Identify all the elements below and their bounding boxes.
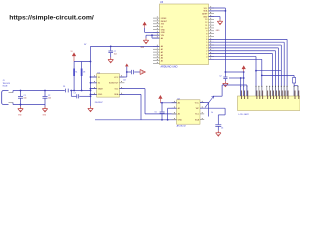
svg-text:104: 104 [48,98,51,100]
svg-text:VBAT: VBAT [98,87,104,90]
svg-text:3V3: 3V3 [161,24,164,26]
svg-text:1: 1 [206,53,207,55]
svg-text:6: 6 [206,39,207,41]
svg-text:ARDUINO UNO: ARDUINO UNO [161,66,178,69]
svg-text:SDA: SDA [114,93,119,96]
svg-text:10: 10 [205,28,207,30]
svg-text:AREF: AREF [202,13,208,16]
svg-text:VCC: VCC [195,102,200,104]
svg-text:1k: 1k [211,112,213,114]
svg-text:A5: A5 [161,60,163,63]
svg-text:SQW/OUT: SQW/OUT [109,83,119,85]
svg-text:A4: A4 [161,57,163,60]
svg-text:C1: C1 [24,95,26,97]
svg-text:C2: C2 [48,95,50,97]
svg-text:C5: C5 [155,112,157,114]
svg-text:C6: C6 [221,127,223,129]
svg-text:VCC: VCC [114,77,119,79]
svg-text:4: 4 [206,45,207,47]
svg-text:8: 8 [206,33,207,35]
svg-text:0: 0 [206,56,207,58]
svg-text:5V-IN: 5V-IN [3,86,8,88]
svg-text:A0: A0 [161,37,163,40]
svg-text:A2: A2 [161,51,163,54]
svg-text:TBLOCK: TBLOCK [3,83,11,85]
svg-text:3: 3 [206,48,207,50]
svg-text:GND: GND [203,16,208,18]
svg-text:11: 11 [205,25,207,27]
svg-text:D1: D1 [63,86,65,88]
svg-text:GND: GND [161,29,166,31]
svg-text:12: 12 [205,22,207,24]
svg-text:9: 9 [206,31,207,33]
svg-text:A3: A3 [161,54,163,57]
svg-text:GND: GND [161,32,166,34]
svg-text:DS1307: DS1307 [95,102,104,104]
svg-text:AT24C32: AT24C32 [177,125,187,128]
svg-text:C2: C2 [219,76,221,78]
svg-text:GND: GND [98,94,103,96]
svg-text:C8: C8 [83,72,85,74]
svg-text:A1: A1 [161,48,163,51]
svg-text:J1: J1 [3,80,5,82]
svg-text:104: 104 [123,80,126,82]
svg-text:104: 104 [24,98,27,100]
svg-text:SDA: SDA [195,118,200,121]
svg-text:GND: GND [178,119,183,121]
svg-text:RESET: RESET [161,21,168,23]
svg-text:A0: A0 [161,45,163,48]
svg-text:SCL: SCL [204,8,208,10]
svg-text:104: 104 [114,54,117,56]
svg-text:LCD-16X2: LCD-16X2 [239,114,250,116]
svg-text:IOREF: IOREF [161,18,168,20]
svg-text:5: 5 [206,42,207,44]
svg-text:X1: X1 [75,72,77,74]
svg-text:7: 7 [206,36,207,38]
svg-text:13: 13 [205,19,207,21]
svg-text:https://simple-circuit.com/: https://simple-circuit.com/ [9,14,94,21]
svg-text:C3: C3 [74,92,76,94]
svg-text:2: 2 [206,51,207,53]
